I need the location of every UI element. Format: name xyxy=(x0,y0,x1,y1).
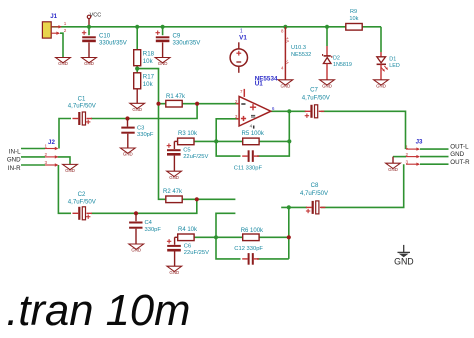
label R17 ref xyxy=(143,74,155,81)
svg-text:R2 47k: R2 47k xyxy=(163,189,183,195)
junction C9 xyxy=(161,25,165,29)
op-amp power unit U10.3 xyxy=(281,27,290,80)
svg-text:J3: J3 xyxy=(416,138,423,145)
net label IN-L xyxy=(9,148,21,155)
resistor R18 xyxy=(134,50,141,66)
svg-text:GND: GND xyxy=(394,256,414,266)
wire D1 branch xyxy=(380,27,382,52)
svg-text:C9: C9 xyxy=(173,32,181,39)
svg-text:3: 3 xyxy=(45,160,48,165)
svg-text:GND: GND xyxy=(158,61,168,66)
wire C2 to corner up to R2 node xyxy=(91,199,197,213)
label R17 value xyxy=(143,81,154,88)
capacitor C7 xyxy=(305,105,325,118)
connector J1 xyxy=(42,21,66,38)
label C5 ref xyxy=(183,147,190,153)
label R9 value xyxy=(349,16,358,22)
junction R1 right xyxy=(195,102,199,106)
label J3 xyxy=(416,138,423,145)
svg-text:U1: U1 xyxy=(255,81,264,88)
svg-text:R6 100k: R6 100k xyxy=(241,228,264,234)
svg-text:C4: C4 xyxy=(145,220,153,226)
svg-text:R1 47k: R1 47k xyxy=(166,94,186,100)
resistor R1 xyxy=(166,100,182,107)
svg-text:1: 1 xyxy=(45,144,48,149)
wire C12 to R6 right node xyxy=(257,258,289,260)
wire C1 to corner up to pin2 node xyxy=(91,104,197,119)
resistor R6 xyxy=(243,234,259,241)
label R4 ref xyxy=(178,227,198,233)
svg-text:OUT-L: OUT-L xyxy=(450,144,469,151)
svg-text:10k: 10k xyxy=(349,16,358,22)
junction R2 right xyxy=(195,197,199,201)
junction R1 left xyxy=(156,102,160,106)
wire C12 branch xyxy=(216,237,241,259)
wire R2 row stub (pin 2 of missing op-amp) xyxy=(183,198,236,200)
svg-text:LED: LED xyxy=(389,63,400,69)
svg-text:GND: GND xyxy=(281,84,291,89)
capacitor C11 xyxy=(242,150,259,162)
voltage source V1 xyxy=(230,42,247,73)
wire C3 to ground xyxy=(127,134,129,148)
svg-text:GND: GND xyxy=(132,107,142,112)
svg-text:NE5532: NE5532 xyxy=(291,52,311,58)
wire op-amp pin 3 stub xyxy=(216,119,239,142)
label J1 xyxy=(50,13,57,20)
wire R3 to C5 xyxy=(174,141,177,149)
svg-text:GND: GND xyxy=(388,167,398,172)
label D2 ref xyxy=(333,55,340,61)
label C10 value xyxy=(99,39,128,46)
svg-text:IN-L: IN-L xyxy=(9,148,21,155)
label C1 value xyxy=(68,103,97,110)
diode D2 xyxy=(323,46,332,80)
junction op-amp output xyxy=(287,109,291,113)
ground for C10 xyxy=(82,42,97,66)
svg-text:OUT-R: OUT-R xyxy=(450,159,470,166)
svg-text:330uf/35V: 330uf/35V xyxy=(99,39,128,46)
connector J2 pin 1 xyxy=(45,144,59,151)
label C7 ref xyxy=(310,87,318,94)
svg-text:GND: GND xyxy=(131,248,141,253)
power flag VCC xyxy=(87,13,101,27)
svg-text:22uF/25V: 22uF/25V xyxy=(184,250,209,256)
junction divider midpoint xyxy=(135,67,139,71)
svg-text:VCC: VCC xyxy=(90,13,102,19)
capacitor C3 plates xyxy=(121,128,134,133)
wire R1 row to op-amp pin 2 xyxy=(159,103,240,105)
svg-text:GND: GND xyxy=(58,61,68,66)
label V1 pin 1 xyxy=(240,29,243,35)
net label IN-R xyxy=(8,165,21,172)
wire R4 to C6 xyxy=(175,237,178,245)
svg-text:GND: GND xyxy=(322,84,332,89)
svg-text:C7: C7 xyxy=(310,87,318,94)
label C11 ref xyxy=(234,166,263,172)
svg-text:GND: GND xyxy=(7,157,21,164)
label C2 ref xyxy=(78,191,86,198)
junction D2 xyxy=(325,25,329,29)
wire C8 left to output stub xyxy=(281,206,307,208)
label D1 ref xyxy=(389,56,396,62)
junction C3 xyxy=(125,116,129,120)
ground for C6 xyxy=(167,266,182,275)
op-amp U1 xyxy=(235,89,275,129)
svg-text:1N5819: 1N5819 xyxy=(333,62,352,68)
wire R5 right to output node xyxy=(259,140,289,142)
label C6 ref xyxy=(184,243,191,249)
capacitor C12 xyxy=(242,253,259,265)
capacitor C10 xyxy=(82,31,96,41)
svg-text:R3 10k: R3 10k xyxy=(178,131,198,137)
svg-text:R4 10k: R4 10k xyxy=(178,227,198,233)
ground for C5 xyxy=(167,171,182,180)
wire J2 pin1 label wire xyxy=(21,148,45,150)
label U1 value NE5534 xyxy=(255,75,278,82)
net label OUT-L xyxy=(450,144,469,151)
svg-text:U10.3: U10.3 xyxy=(291,45,306,51)
wire R18-R17 link xyxy=(136,66,138,73)
capacitor C3 xyxy=(127,119,129,127)
svg-text:6: 6 xyxy=(272,106,275,111)
ground for U10.3 xyxy=(278,80,293,89)
label U1 ref xyxy=(255,81,264,88)
svg-text:GND: GND xyxy=(169,175,179,180)
wire J3 pin3 down to C8 row xyxy=(321,164,404,207)
ground for C4 xyxy=(129,244,144,253)
svg-text:4,7uF/50V: 4,7uF/50V xyxy=(68,199,97,206)
svg-text:V+: V+ xyxy=(285,37,290,43)
svg-text:GND: GND xyxy=(450,151,464,158)
svg-text:GND: GND xyxy=(84,61,94,66)
svg-text:330pF: 330pF xyxy=(137,132,154,138)
label U10.3 value NE5532 xyxy=(291,52,311,58)
svg-text:R9: R9 xyxy=(350,9,357,15)
svg-text:C8: C8 xyxy=(311,182,319,189)
svg-text:4,7uF/50V: 4,7uF/50V xyxy=(68,103,97,110)
wire C6 to ground xyxy=(174,251,176,266)
resistor R3 xyxy=(178,138,194,145)
label R2 ref xyxy=(163,189,183,195)
capacitor C4 xyxy=(135,213,137,221)
ground for D2 xyxy=(320,80,335,89)
svg-text:C3: C3 xyxy=(137,126,144,132)
capacitor C4 plates xyxy=(129,223,142,228)
svg-text:C2: C2 xyxy=(78,191,86,198)
svg-text:22uF/25V: 22uF/25V xyxy=(183,154,208,160)
wire J2 pin3 label wire xyxy=(21,164,45,166)
resistor R4 xyxy=(178,234,194,241)
wire C5 to ground xyxy=(173,156,175,172)
junction R18 top xyxy=(135,25,139,29)
label J2 xyxy=(48,139,55,146)
capacitor C8 xyxy=(306,201,326,214)
resistor R9 xyxy=(346,24,362,31)
svg-text:10k: 10k xyxy=(143,58,154,65)
label C3 value xyxy=(137,132,154,138)
wire bias tap xyxy=(137,69,158,104)
svg-text:C1: C1 xyxy=(78,96,86,103)
svg-text:IN-R: IN-R xyxy=(8,165,21,172)
ground for C9 xyxy=(155,42,170,66)
wire bias divider drop xyxy=(136,28,138,50)
svg-text:D1: D1 xyxy=(389,56,396,62)
svg-text:V-: V- xyxy=(285,59,290,64)
svg-text:2: 2 xyxy=(64,28,67,33)
wire VCC rail xyxy=(51,26,381,28)
connector J2 pin 3 xyxy=(45,160,59,167)
label C4 ref xyxy=(145,220,153,226)
label C12 ref xyxy=(234,246,263,252)
junction node B xyxy=(214,235,218,239)
label C4 value xyxy=(145,227,162,233)
junction VCC/C10 xyxy=(87,25,91,29)
capacitor C9 xyxy=(156,31,170,41)
wire J3 pin2 gnd wire xyxy=(393,156,406,158)
junction node A xyxy=(214,139,218,143)
svg-text:R5 100k: R5 100k xyxy=(242,131,265,137)
svg-text:GND: GND xyxy=(65,168,75,173)
connector J3 pin 3 xyxy=(406,159,420,166)
wire pin3 stub of missing op-amp xyxy=(216,213,235,237)
junction U10.3 V+ pin xyxy=(283,25,287,29)
wire R6 right to bottom output xyxy=(259,236,289,238)
svg-text:J1: J1 xyxy=(50,13,57,20)
label R18 value xyxy=(143,58,154,65)
junction C4 xyxy=(134,211,138,215)
capacitor C1 xyxy=(73,112,93,125)
resistor R17 xyxy=(134,73,141,89)
label R9 ref xyxy=(350,9,357,15)
wire D2 branch xyxy=(326,27,328,46)
ground for J2 pin 2 xyxy=(63,164,78,173)
label C6 value xyxy=(184,250,209,256)
svg-text:330uf/35V: 330uf/35V xyxy=(173,39,202,46)
label D1 value xyxy=(389,63,400,69)
wire R17 to ground xyxy=(136,89,138,104)
ground for C3 xyxy=(120,148,135,157)
label C9 value xyxy=(173,39,202,46)
svg-text:4,7uF/50V: 4,7uF/50V xyxy=(300,190,329,197)
label C1 ref xyxy=(78,96,86,103)
connector J2 pin 2 xyxy=(45,152,59,159)
net label GND input xyxy=(7,157,21,164)
svg-text:GND: GND xyxy=(123,152,133,157)
text .tran 10m xyxy=(6,287,190,335)
svg-text:2: 2 xyxy=(45,152,48,157)
label C10 ref xyxy=(99,32,111,39)
svg-text:3: 3 xyxy=(235,114,238,119)
wire C9 drop xyxy=(162,27,164,35)
wire node B row R4-R6 xyxy=(194,236,243,238)
wire J3 pin2 gnd drop xyxy=(392,157,394,164)
capacitor C6 xyxy=(167,239,181,250)
svg-text:J2: J2 xyxy=(48,139,55,146)
junction bottom output xyxy=(287,205,291,209)
label C8 ref xyxy=(311,182,319,189)
resistor R2 xyxy=(166,196,182,203)
label R6 ref xyxy=(241,228,264,234)
wire C7 to J3 pin 1 xyxy=(321,111,406,149)
svg-text:10k: 10k xyxy=(143,81,154,88)
wire C11 branch xyxy=(216,141,240,156)
connector J3 pin 1 xyxy=(406,144,420,151)
junction R5 right xyxy=(287,139,291,143)
label R1 ref xyxy=(166,94,186,100)
svg-text:1: 1 xyxy=(406,144,409,149)
svg-text:C5: C5 xyxy=(183,147,190,153)
wire C1 input from J2 pin 1 xyxy=(59,119,71,149)
ground for D1 xyxy=(374,80,389,89)
wire J3 pin1 label wire xyxy=(420,148,449,150)
wire J3 pin2 label wire xyxy=(420,156,449,158)
ground for J3 pin 2 xyxy=(386,163,401,172)
svg-text:C6: C6 xyxy=(184,243,191,249)
LED D1 xyxy=(377,52,388,80)
label C2 value xyxy=(68,199,97,206)
svg-text:GND: GND xyxy=(376,84,386,89)
svg-text:3: 3 xyxy=(406,159,409,164)
svg-text:330pF: 330pF xyxy=(145,227,162,233)
wire bias vertical to R2 xyxy=(159,104,166,200)
svg-text:1: 1 xyxy=(64,21,67,26)
junction R6 right xyxy=(287,235,291,239)
wire J3 pin3 label wire xyxy=(420,163,449,165)
wire J2 pin2 to ground xyxy=(58,157,71,165)
connector J3 pin 2 xyxy=(406,152,420,159)
svg-text:2: 2 xyxy=(406,152,409,157)
label C7 value xyxy=(302,94,331,101)
net label GND output xyxy=(450,151,464,158)
label C9 ref xyxy=(173,32,181,39)
net label OUT-R xyxy=(450,159,470,166)
ground reference symbol (0 net) xyxy=(394,245,414,267)
wire C10 drop xyxy=(88,27,90,35)
resistor R5 xyxy=(243,138,259,145)
svg-text:C12 330pF: C12 330pF xyxy=(234,246,263,252)
svg-text:R17: R17 xyxy=(143,74,155,81)
svg-text:GND: GND xyxy=(169,270,179,275)
label C3 ref xyxy=(137,126,144,132)
wire bottom output vertical xyxy=(288,207,290,259)
wire J1 pin2 to ground xyxy=(60,33,63,57)
svg-text:D2: D2 xyxy=(333,55,340,61)
svg-text:V1: V1 xyxy=(239,34,247,41)
label V1 ref xyxy=(239,34,247,41)
svg-text:R18: R18 xyxy=(143,51,155,58)
svg-text:.tran 10m: .tran 10m xyxy=(6,287,190,335)
wire J2 pin2 label wire xyxy=(21,156,45,158)
capacitor C2 xyxy=(73,207,93,220)
label R3 ref xyxy=(178,131,198,137)
svg-text:C10: C10 xyxy=(99,32,111,39)
label C5 value xyxy=(183,154,208,160)
svg-text:4,7uF/50V: 4,7uF/50V xyxy=(302,94,331,101)
svg-text:C11 330pF: C11 330pF xyxy=(234,166,263,172)
wire C2 input from J2 pin 3 xyxy=(58,165,71,213)
label R18 ref xyxy=(143,51,155,58)
wire C11 to R5 right node xyxy=(257,111,289,156)
ground for R17 xyxy=(130,103,145,112)
label C8 value xyxy=(300,190,329,197)
ground for J1 pin 2 xyxy=(56,58,71,67)
wire node A row R3-R5 xyxy=(194,140,243,142)
svg-text:2: 2 xyxy=(235,99,238,104)
wire C4 to ground xyxy=(135,229,137,244)
label U10.3 ref xyxy=(291,45,306,51)
label D2 value xyxy=(333,62,352,68)
wire op-amp output to C7 xyxy=(271,110,306,112)
capacitor C5 xyxy=(167,143,181,154)
label R5 ref xyxy=(242,131,265,137)
